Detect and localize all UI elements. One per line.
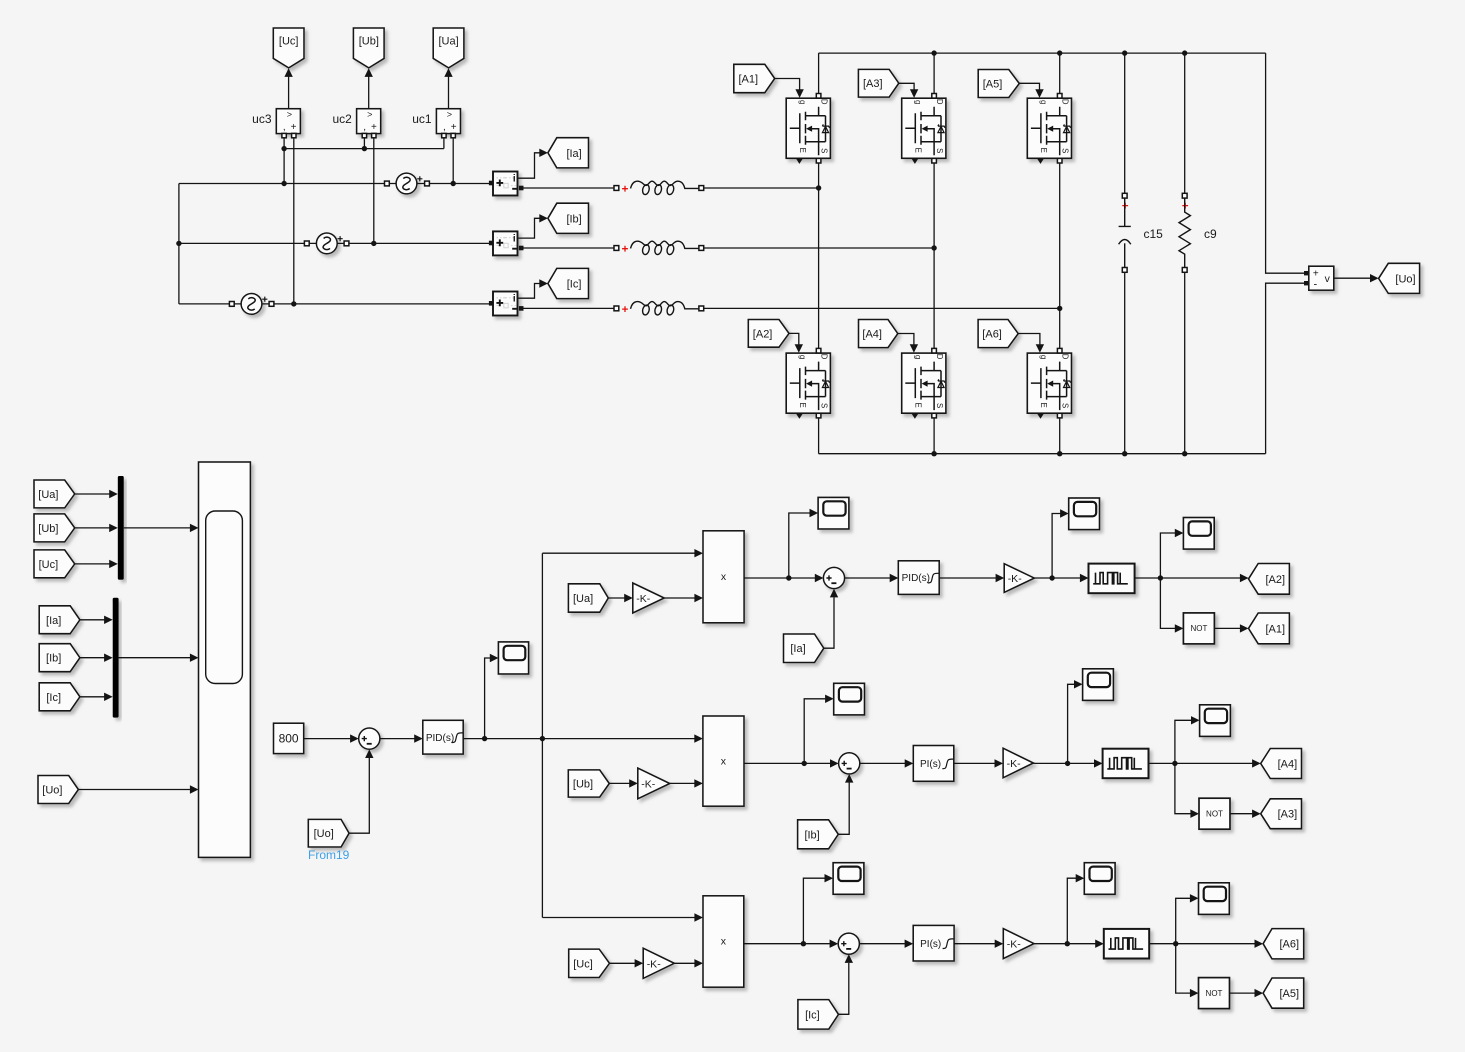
wire sum to PID bbox=[380, 738, 415, 740]
node neutral-phaseB junction bbox=[176, 241, 181, 246]
svg-text:+: + bbox=[371, 122, 377, 133]
wire uc1 output bbox=[448, 70, 450, 109]
svg-text:+: + bbox=[451, 122, 457, 133]
product C bbox=[703, 896, 744, 987]
wire PID output to trunk bbox=[463, 738, 542, 740]
svg-text:PI(s): PI(s) bbox=[920, 759, 941, 770]
svg-text:[A2]: [A2] bbox=[1266, 574, 1286, 586]
sum B bbox=[839, 753, 860, 774]
wire branch to NOT C bbox=[1176, 944, 1191, 993]
from tag [A4] bbox=[859, 320, 898, 348]
svg-text:[A3]: [A3] bbox=[1278, 809, 1298, 821]
wire A4 gate bbox=[898, 334, 914, 346]
PWM generator C bbox=[1104, 929, 1149, 959]
scope C2 bbox=[1084, 863, 1115, 895]
svg-text:S: S bbox=[935, 403, 944, 408]
wire Ua to gain A bbox=[608, 597, 624, 599]
svg-text:g: g bbox=[798, 355, 807, 359]
scope main display bbox=[199, 462, 251, 857]
voltage measurement Uo bbox=[1309, 266, 1334, 290]
wire inductor B to leg 2 bbox=[703, 247, 934, 249]
from tag [Ia] row A bbox=[784, 634, 824, 663]
wire gain C2 to PWM C bbox=[1034, 943, 1096, 945]
inductor Lc bbox=[614, 306, 619, 311]
svg-text:c9: c9 bbox=[1204, 227, 1217, 241]
wire uc3 output bbox=[288, 70, 290, 109]
wire trunk to product C bbox=[542, 917, 694, 919]
wire branch to scope A1 bbox=[789, 513, 810, 578]
wire sensor C to inductor bbox=[523, 307, 615, 309]
svg-text:[Uc]: [Uc] bbox=[279, 36, 299, 48]
wire neutral trunk bbox=[178, 184, 180, 304]
scope A1 bbox=[818, 497, 849, 529]
AC source phase A bbox=[396, 173, 417, 194]
PID controller A bbox=[898, 561, 939, 595]
svg-text:g: g bbox=[914, 355, 923, 359]
svg-text:PID(s): PID(s) bbox=[426, 733, 454, 744]
voltage measurement uc3 bbox=[276, 109, 300, 134]
svg-text:g: g bbox=[1039, 355, 1048, 359]
svg-text:S: S bbox=[935, 148, 944, 153]
svg-text:[A3]: [A3] bbox=[863, 78, 883, 90]
mux voltages bbox=[118, 476, 124, 580]
wire phase C source to current sensor bbox=[272, 303, 491, 305]
svg-text:[Ic]: [Ic] bbox=[805, 1009, 820, 1021]
scope C3 bbox=[1199, 883, 1230, 915]
wire A6 gate bbox=[1018, 334, 1040, 346]
svg-text:[A4]: [A4] bbox=[862, 329, 882, 341]
wire phase C neutral segment bbox=[179, 303, 232, 305]
from tag [Ib] scope bbox=[39, 644, 80, 672]
wire sum A to PID A bbox=[845, 577, 890, 579]
svg-text:[Uo]: [Uo] bbox=[314, 828, 334, 840]
svg-text:NOT: NOT bbox=[1206, 810, 1223, 819]
svg-text:-K-: -K- bbox=[641, 779, 656, 791]
svg-text:From19: From19 bbox=[308, 848, 350, 862]
sum C bbox=[838, 933, 859, 954]
svg-text:E: E bbox=[798, 402, 807, 407]
svg-text:uc1: uc1 bbox=[412, 112, 432, 126]
svg-text:-K-: -K- bbox=[647, 958, 662, 970]
svg-text:[A2]: [A2] bbox=[753, 328, 773, 340]
svg-text:800: 800 bbox=[279, 732, 299, 746]
wire branch to NOT A bbox=[1160, 578, 1175, 628]
wire mux1 to scope bbox=[124, 527, 191, 529]
wire c15 top lead bbox=[1124, 53, 1126, 193]
wire leg2 source drop bbox=[933, 418, 935, 454]
goto tag [A4] bbox=[1261, 749, 1302, 779]
svg-text:[Ub]: [Ub] bbox=[38, 523, 58, 535]
scope A2 bbox=[1069, 498, 1100, 530]
svg-text:D: D bbox=[1061, 354, 1070, 360]
from tag [A2] bbox=[748, 320, 789, 348]
from tag [Ic] scope bbox=[39, 683, 80, 711]
svg-text:x: x bbox=[721, 936, 727, 948]
mux currents bbox=[113, 598, 119, 718]
from tag [Uc] row C bbox=[569, 949, 610, 977]
svg-text:uc2: uc2 bbox=[332, 112, 352, 126]
svg-text:>: > bbox=[367, 110, 372, 120]
wire product A output bbox=[744, 577, 815, 579]
wire uc3 plus to phase C bbox=[293, 136, 295, 304]
svg-text:-K-: -K- bbox=[636, 593, 651, 605]
svg-text:[Ic]: [Ic] bbox=[46, 692, 61, 704]
svg-text:[Uo]: [Uo] bbox=[42, 785, 62, 797]
svg-text:-K-: -K- bbox=[1008, 573, 1023, 585]
wire ia signal bbox=[518, 153, 540, 178]
sum main bbox=[359, 728, 380, 749]
wire uc1 plus to phase A bbox=[452, 136, 454, 184]
wire leg3 source drop bbox=[1059, 418, 1061, 454]
goto tag [A2] bbox=[1249, 564, 1290, 595]
wire Ia to mux bbox=[80, 619, 105, 621]
wire leg3 midpoint bbox=[1059, 163, 1061, 348]
voltage measurement uc2 bbox=[357, 109, 381, 134]
goto tag [A3] bbox=[1261, 799, 1302, 829]
svg-text:E: E bbox=[914, 148, 923, 153]
svg-text:S: S bbox=[1061, 148, 1070, 153]
svg-text:v: v bbox=[1325, 273, 1331, 285]
wire DC bus positive rail bbox=[819, 52, 1266, 54]
current measurement phase A bbox=[493, 172, 518, 196]
svg-text:,: , bbox=[283, 122, 286, 133]
wire Uo to scope bbox=[78, 789, 190, 791]
svg-text:PI(s): PI(s) bbox=[920, 939, 941, 950]
wire branch to NOT B bbox=[1175, 763, 1191, 813]
wire trunk to product B bbox=[542, 738, 694, 740]
from tag [Ia] scope bbox=[39, 606, 80, 634]
svg-text:D: D bbox=[820, 99, 829, 105]
svg-text:,: , bbox=[443, 122, 446, 133]
svg-text:NOT: NOT bbox=[1190, 624, 1207, 633]
svg-text:[A5]: [A5] bbox=[1280, 988, 1300, 1000]
svg-text:[Ib]: [Ib] bbox=[566, 213, 581, 225]
wire inductor C to leg 3 bbox=[703, 307, 1060, 309]
goto tag [A1] bbox=[1249, 613, 1290, 644]
from tag [Ib] row B bbox=[798, 820, 839, 849]
wire gain B2 to PWM B bbox=[1033, 762, 1094, 764]
PWM generator A bbox=[1089, 564, 1135, 594]
svg-text:D: D bbox=[935, 99, 944, 105]
AC source phase C bbox=[241, 294, 262, 315]
svg-text:i: i bbox=[513, 233, 516, 244]
svg-text:[Ia]: [Ia] bbox=[790, 643, 805, 655]
wire Uc to gain C bbox=[610, 962, 635, 964]
logic NOT C bbox=[1199, 978, 1230, 1009]
svg-text:g: g bbox=[798, 100, 807, 104]
gain A1 -K- bbox=[633, 583, 664, 613]
wire trunk to product A bbox=[542, 552, 694, 554]
goto tag [Ic] bbox=[548, 268, 589, 298]
wire PI B to gain bbox=[954, 762, 995, 764]
wire sensor B to inductor bbox=[523, 247, 615, 249]
from tag [Uc] scope bbox=[34, 550, 75, 578]
scope C1 bbox=[833, 863, 864, 895]
wire leg1 midpoint bbox=[818, 163, 820, 348]
from tag [Ic] row C bbox=[798, 1000, 839, 1030]
inductor Lb bbox=[614, 246, 619, 251]
product B bbox=[703, 716, 744, 806]
wire inductor A to leg 1 bbox=[703, 187, 819, 189]
scope B2 bbox=[1083, 669, 1114, 701]
svg-text:i: i bbox=[513, 294, 516, 305]
from tag [Ub] scope bbox=[34, 514, 75, 542]
wire PWM A output bbox=[1135, 577, 1241, 579]
svg-text:+: + bbox=[291, 122, 297, 133]
svg-text:uc3: uc3 bbox=[252, 112, 272, 126]
wire branch to scope A3 bbox=[1160, 533, 1175, 578]
transistor Q6 lower leg3 bbox=[1027, 353, 1071, 413]
from tag [Ua] row A bbox=[568, 584, 608, 612]
transistor Q5 upper leg3 bbox=[1027, 98, 1071, 158]
wire leg2 drain riser bbox=[933, 53, 935, 94]
svg-text:[Ub]: [Ub] bbox=[573, 779, 593, 791]
wire DC bus negative rail bbox=[819, 453, 1266, 455]
PID controller main bbox=[423, 720, 463, 754]
inductor La bbox=[614, 186, 619, 191]
wire branch to scope C2 bbox=[1067, 878, 1076, 944]
gain A2 -K- bbox=[1004, 564, 1034, 593]
svg-text:i: i bbox=[513, 174, 516, 185]
scope B1 bbox=[834, 683, 865, 715]
wire branch to scope main bbox=[485, 658, 491, 739]
wire product C output bbox=[744, 943, 830, 945]
wire gain C to product bbox=[674, 962, 694, 964]
from tag [Uo] scope bbox=[38, 776, 78, 804]
wire sum C to PI C bbox=[859, 943, 905, 945]
constant 800 bbox=[274, 723, 304, 753]
current measurement phase C bbox=[493, 292, 518, 316]
wire ib signal bbox=[518, 218, 540, 238]
svg-text:S: S bbox=[820, 403, 829, 408]
goto tag [Uo] bbox=[1379, 263, 1420, 293]
wire positive rail to voltmeter bbox=[1266, 53, 1304, 273]
wire PWM C output bbox=[1149, 943, 1255, 945]
gain B1 -K- bbox=[638, 768, 670, 799]
goto tag [Ia] bbox=[548, 138, 589, 168]
wire Ia to sum A bbox=[824, 597, 834, 648]
svg-text:-K-: -K- bbox=[1007, 758, 1022, 770]
scope main small bbox=[498, 642, 528, 674]
transistor Q2 lower leg1 bbox=[786, 353, 830, 413]
wire uc2 minus bbox=[363, 136, 365, 149]
wire leg1 source drop bbox=[818, 418, 820, 454]
goto tag [Ua] bbox=[433, 28, 464, 68]
svg-text:-: - bbox=[1313, 279, 1317, 291]
svg-text:[Uo]: [Uo] bbox=[1395, 273, 1415, 285]
from tag [A1] bbox=[734, 64, 775, 92]
svg-text:E: E bbox=[1039, 148, 1048, 153]
svg-text:>: > bbox=[447, 110, 452, 120]
scope A3 bbox=[1183, 518, 1214, 550]
wire PID A to gain bbox=[939, 577, 996, 579]
wire Ib to sum B bbox=[838, 782, 849, 834]
svg-text:E: E bbox=[798, 148, 807, 153]
wire ic signal bbox=[518, 284, 540, 299]
svg-text:[Ib]: [Ib] bbox=[804, 829, 819, 841]
wire Uc to mux bbox=[75, 563, 110, 565]
from tag [A6] bbox=[978, 320, 1018, 348]
wire PWM B output bbox=[1149, 762, 1253, 764]
wire Ib to mux bbox=[80, 657, 105, 659]
wire 800 to sum bbox=[304, 738, 351, 740]
wire leg1 drain riser bbox=[818, 53, 820, 94]
svg-text:[Uc]: [Uc] bbox=[39, 559, 59, 571]
wire phase A source to current sensor bbox=[427, 183, 491, 185]
from tag [Uo] From19 bbox=[308, 819, 349, 847]
wire phase A neutral segment bbox=[179, 183, 387, 185]
from tag [A5] bbox=[978, 70, 1019, 98]
svg-text:x: x bbox=[721, 755, 727, 767]
goto tag [Ib] bbox=[548, 203, 589, 233]
from tag [A3] bbox=[858, 69, 898, 97]
from tag [Ub] row B bbox=[568, 770, 609, 797]
goto tag [A6] bbox=[1263, 929, 1304, 959]
svg-text:D: D bbox=[935, 354, 944, 360]
resistor c9 bbox=[1182, 193, 1187, 198]
svg-text:[Ua]: [Ua] bbox=[38, 489, 58, 501]
gain C1 -K- bbox=[643, 948, 674, 978]
AC source phase B bbox=[316, 233, 337, 254]
PI controller C bbox=[913, 925, 954, 961]
transistor Q3 upper leg2 bbox=[902, 98, 946, 158]
svg-text:NOT: NOT bbox=[1206, 989, 1223, 998]
svg-text:g: g bbox=[1039, 100, 1048, 104]
wire measurement minus collector bbox=[284, 148, 444, 150]
wire sensor A to inductor bbox=[523, 187, 615, 189]
svg-text:[A6]: [A6] bbox=[1280, 939, 1300, 951]
wire A5 gate bbox=[1019, 83, 1039, 90]
wire uc3 minus to neutral bbox=[283, 136, 285, 184]
svg-text:E: E bbox=[1039, 402, 1048, 407]
svg-text:,: , bbox=[363, 122, 366, 133]
wire leg3 drain riser bbox=[1059, 53, 1061, 94]
wire Ic to mux bbox=[80, 696, 105, 698]
gain C2 -K- bbox=[1003, 929, 1034, 959]
wire c15 bottom lead bbox=[1124, 272, 1126, 453]
svg-text:[Ib]: [Ib] bbox=[46, 653, 61, 665]
svg-text:[Ic]: [Ic] bbox=[567, 279, 582, 291]
wire gain B to product bbox=[670, 782, 695, 784]
goto tag [Ub] bbox=[353, 28, 384, 68]
wire gain A2 to PWM A bbox=[1034, 577, 1080, 579]
wire Ub to mux bbox=[75, 527, 110, 529]
wire PI C to gain bbox=[954, 943, 995, 945]
svg-text:[Ua]: [Ua] bbox=[573, 593, 593, 605]
capacitor c15 bbox=[1122, 193, 1127, 198]
wire branch to scope C3 bbox=[1176, 898, 1191, 943]
from tag [Ua] scope bbox=[34, 480, 75, 508]
wire leg2 midpoint bbox=[933, 163, 935, 348]
wire Ua to mux bbox=[75, 493, 110, 495]
wire NOT C to A5 bbox=[1230, 992, 1255, 994]
svg-text:[Uc]: [Uc] bbox=[573, 958, 593, 970]
current measurement phase B bbox=[493, 231, 518, 255]
logic NOT B bbox=[1199, 798, 1230, 829]
wire gain A to product bbox=[664, 597, 695, 599]
svg-text:[Ua]: [Ua] bbox=[439, 36, 459, 48]
wire A1 gate bbox=[775, 79, 800, 91]
svg-text:[A1]: [A1] bbox=[739, 74, 759, 86]
wire sum B to PI B bbox=[860, 762, 905, 764]
wire NOT B to A3 bbox=[1230, 813, 1252, 815]
wire voltmeter output bbox=[1334, 277, 1371, 279]
PWM generator B bbox=[1103, 749, 1149, 779]
svg-text:PID(s): PID(s) bbox=[902, 573, 930, 584]
svg-text:>: > bbox=[287, 110, 292, 120]
goto tag [Uc] bbox=[273, 28, 304, 68]
wire branch to scope A2 bbox=[1052, 514, 1060, 579]
wire A2 gate bbox=[789, 333, 799, 345]
svg-text:[A6]: [A6] bbox=[982, 329, 1002, 341]
svg-text:c15: c15 bbox=[1144, 227, 1164, 241]
svg-text:g: g bbox=[914, 100, 923, 104]
svg-text:[A5]: [A5] bbox=[983, 79, 1003, 91]
svg-text:D: D bbox=[820, 354, 829, 360]
product A bbox=[703, 531, 744, 623]
svg-text:x: x bbox=[721, 571, 727, 583]
wire uc1 minus bbox=[443, 136, 445, 149]
svg-text:[Ub]: [Ub] bbox=[359, 36, 379, 48]
scope B3 bbox=[1200, 705, 1231, 737]
wire branch to scope B1 bbox=[804, 699, 825, 764]
svg-text:-K-: -K- bbox=[1007, 939, 1022, 951]
wire branch to scope B2 bbox=[1068, 684, 1075, 763]
wire uc2 output bbox=[368, 70, 370, 109]
transistor Q1 upper leg1 bbox=[786, 98, 830, 158]
svg-text:D: D bbox=[1061, 99, 1070, 105]
wire Ic to sum C bbox=[839, 963, 849, 1015]
wire c9 bottom lead bbox=[1184, 272, 1186, 453]
gain B2 -K- bbox=[1003, 748, 1033, 778]
svg-text:[Ia]: [Ia] bbox=[46, 615, 61, 627]
wire branch to scope C1 bbox=[803, 878, 824, 944]
logic NOT A bbox=[1183, 613, 1214, 644]
wire branch to scope B3 bbox=[1175, 720, 1191, 763]
wire product B output bbox=[744, 762, 830, 764]
svg-text:S: S bbox=[820, 148, 829, 153]
wire Ub to gain B bbox=[609, 782, 629, 784]
wire phase B neutral segment bbox=[179, 242, 307, 244]
transistor Q4 lower leg2 bbox=[902, 353, 946, 413]
goto tag [A5] bbox=[1263, 978, 1304, 1008]
wire mux2 to scope bbox=[119, 657, 191, 659]
svg-text:S: S bbox=[1061, 403, 1070, 408]
PI controller B bbox=[913, 746, 954, 782]
svg-text:[Ia]: [Ia] bbox=[566, 148, 581, 160]
wire A3 gate bbox=[899, 83, 914, 90]
wire NOT A to A1 bbox=[1214, 627, 1240, 629]
wire reference trunk bbox=[541, 553, 543, 917]
wire c9 top lead bbox=[1184, 53, 1186, 193]
wire negative rail to voltmeter bbox=[1266, 283, 1304, 454]
sum A bbox=[823, 567, 844, 588]
wire phase B source to current sensor bbox=[347, 242, 491, 244]
svg-text:[A4]: [A4] bbox=[1278, 759, 1298, 771]
svg-text:[A1]: [A1] bbox=[1266, 623, 1286, 635]
svg-text:E: E bbox=[914, 402, 923, 407]
voltage measurement uc1 bbox=[436, 109, 460, 134]
wire uc2 plus to phase B bbox=[373, 136, 375, 244]
wire Uo feedback to sum bbox=[349, 758, 369, 833]
